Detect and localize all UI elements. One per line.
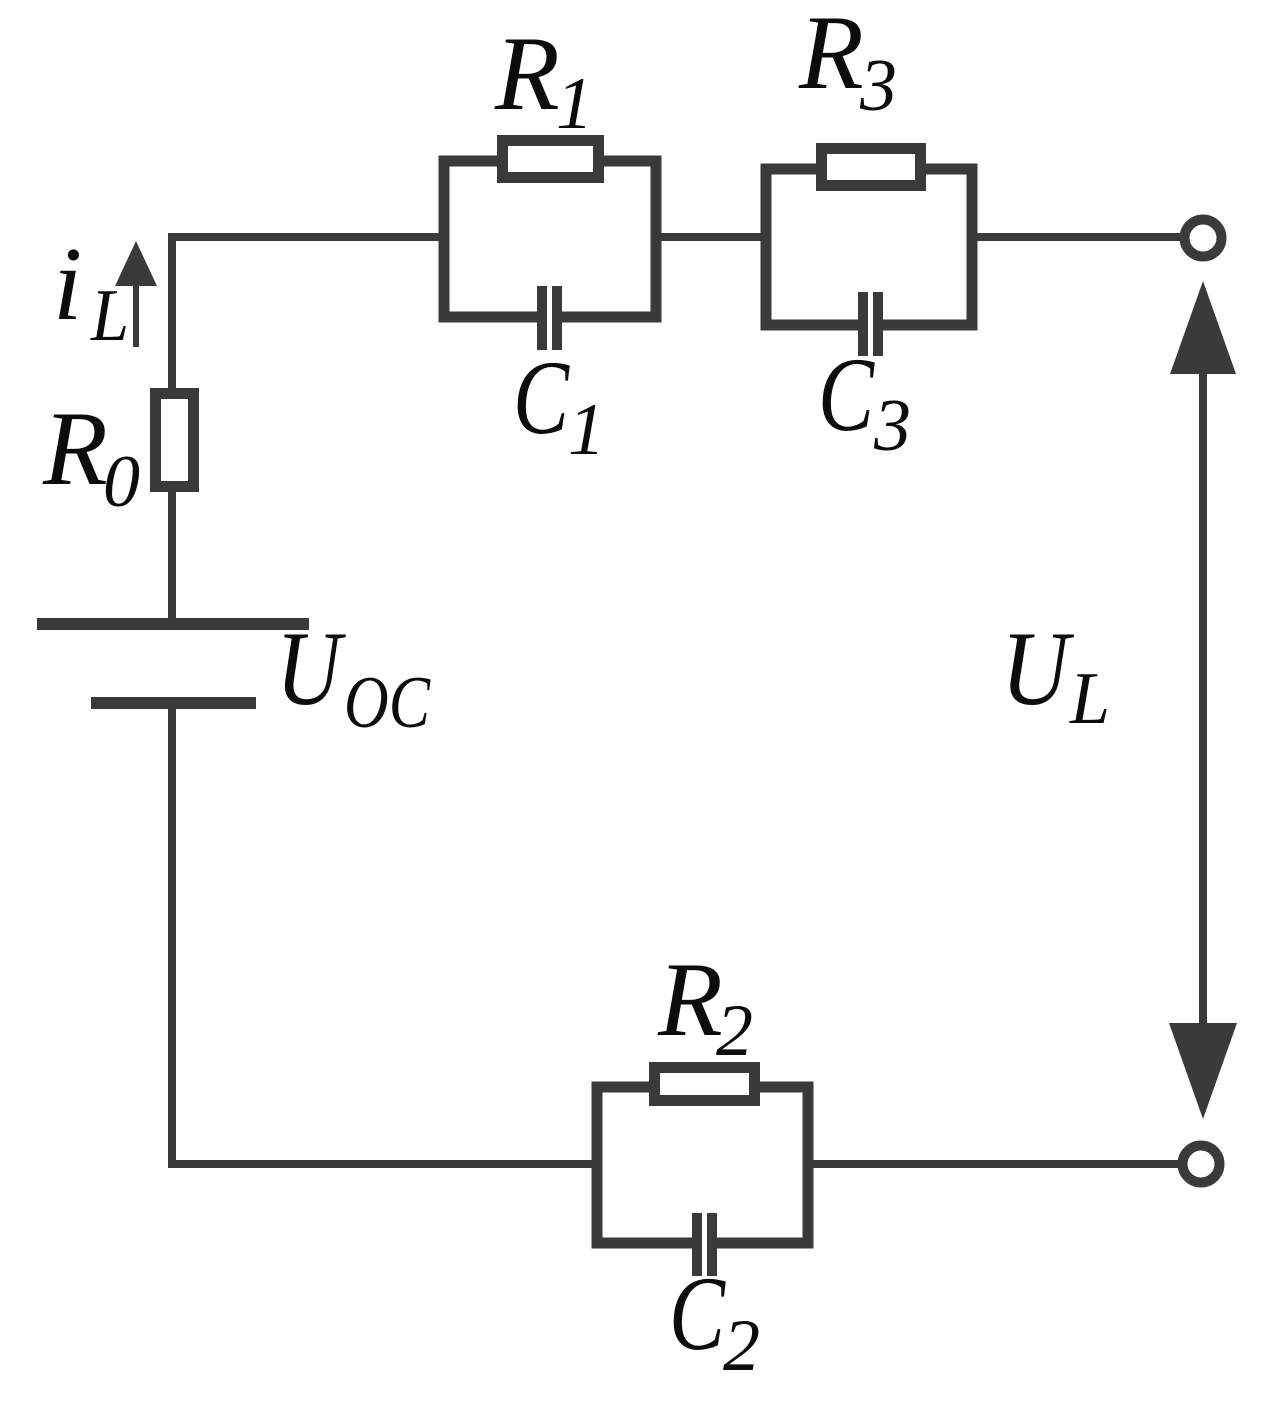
svg-text:U: U bbox=[1001, 610, 1075, 727]
svg-text:2: 2 bbox=[716, 990, 753, 1072]
wire from R2C2 block to negative terminal bbox=[808, 1160, 1178, 1168]
wire from R0 down to battery top plate bbox=[168, 490, 176, 622]
svg-text:R: R bbox=[42, 390, 108, 507]
svg-text:0: 0 bbox=[103, 441, 140, 523]
svg-text:R: R bbox=[798, 0, 864, 111]
svg-text:R: R bbox=[657, 941, 723, 1058]
wire from R3C3 block to positive terminal bbox=[972, 233, 1180, 241]
svg-text:3: 3 bbox=[859, 45, 897, 127]
svg-text:OC: OC bbox=[344, 662, 431, 744]
wire from battery bottom plate down and along bottom rail to R2C2 block bbox=[172, 705, 597, 1164]
battery U_OC negative (short) plate bbox=[91, 697, 256, 709]
node: negative output terminal (bottom right) bbox=[1183, 1146, 1220, 1183]
i_L arrowhead bbox=[115, 241, 157, 286]
svg-text:C: C bbox=[818, 336, 875, 453]
resistor R0 bbox=[156, 394, 194, 487]
U_L arrowhead up bbox=[1170, 281, 1236, 374]
capacitor C3 bbox=[868, 296, 874, 350]
svg-text:2: 2 bbox=[723, 1305, 760, 1387]
svg-text:L: L bbox=[90, 275, 129, 357]
resistor R1 bbox=[503, 141, 599, 178]
wire loop of R2 C2 parallel block bbox=[597, 1087, 808, 1243]
svg-text:i: i bbox=[53, 225, 82, 342]
svg-text:3: 3 bbox=[873, 385, 911, 467]
capacitor C2 bbox=[702, 1217, 708, 1271]
i_L current arrow shaft bbox=[133, 284, 139, 347]
svg-text:R: R bbox=[494, 15, 560, 132]
svg-text:C: C bbox=[669, 1255, 726, 1372]
svg-text:L: L bbox=[1069, 658, 1110, 740]
resistor R2 bbox=[655, 1068, 755, 1101]
U_L arrowhead down bbox=[1169, 1023, 1237, 1119]
node: positive output terminal (top right) bbox=[1185, 220, 1222, 257]
wire loop of R3 C3 parallel block bbox=[766, 169, 972, 325]
U_L measurement arrow shaft bbox=[1199, 372, 1207, 1025]
wire from R0 up and right to R1 (top-left corner) bbox=[172, 237, 444, 392]
resistor R3 bbox=[822, 149, 921, 186]
svg-text:C: C bbox=[513, 339, 570, 456]
capacitor C1 bbox=[547, 290, 553, 344]
battery U_OC positive (long) plate bbox=[37, 618, 309, 630]
wire between R1C1 block and R3C3 block bbox=[656, 233, 766, 241]
svg-text:1: 1 bbox=[568, 389, 605, 471]
svg-text:U: U bbox=[276, 610, 346, 727]
wire loop of R1 C1 parallel block bbox=[444, 161, 656, 317]
svg-text:1: 1 bbox=[556, 63, 593, 145]
